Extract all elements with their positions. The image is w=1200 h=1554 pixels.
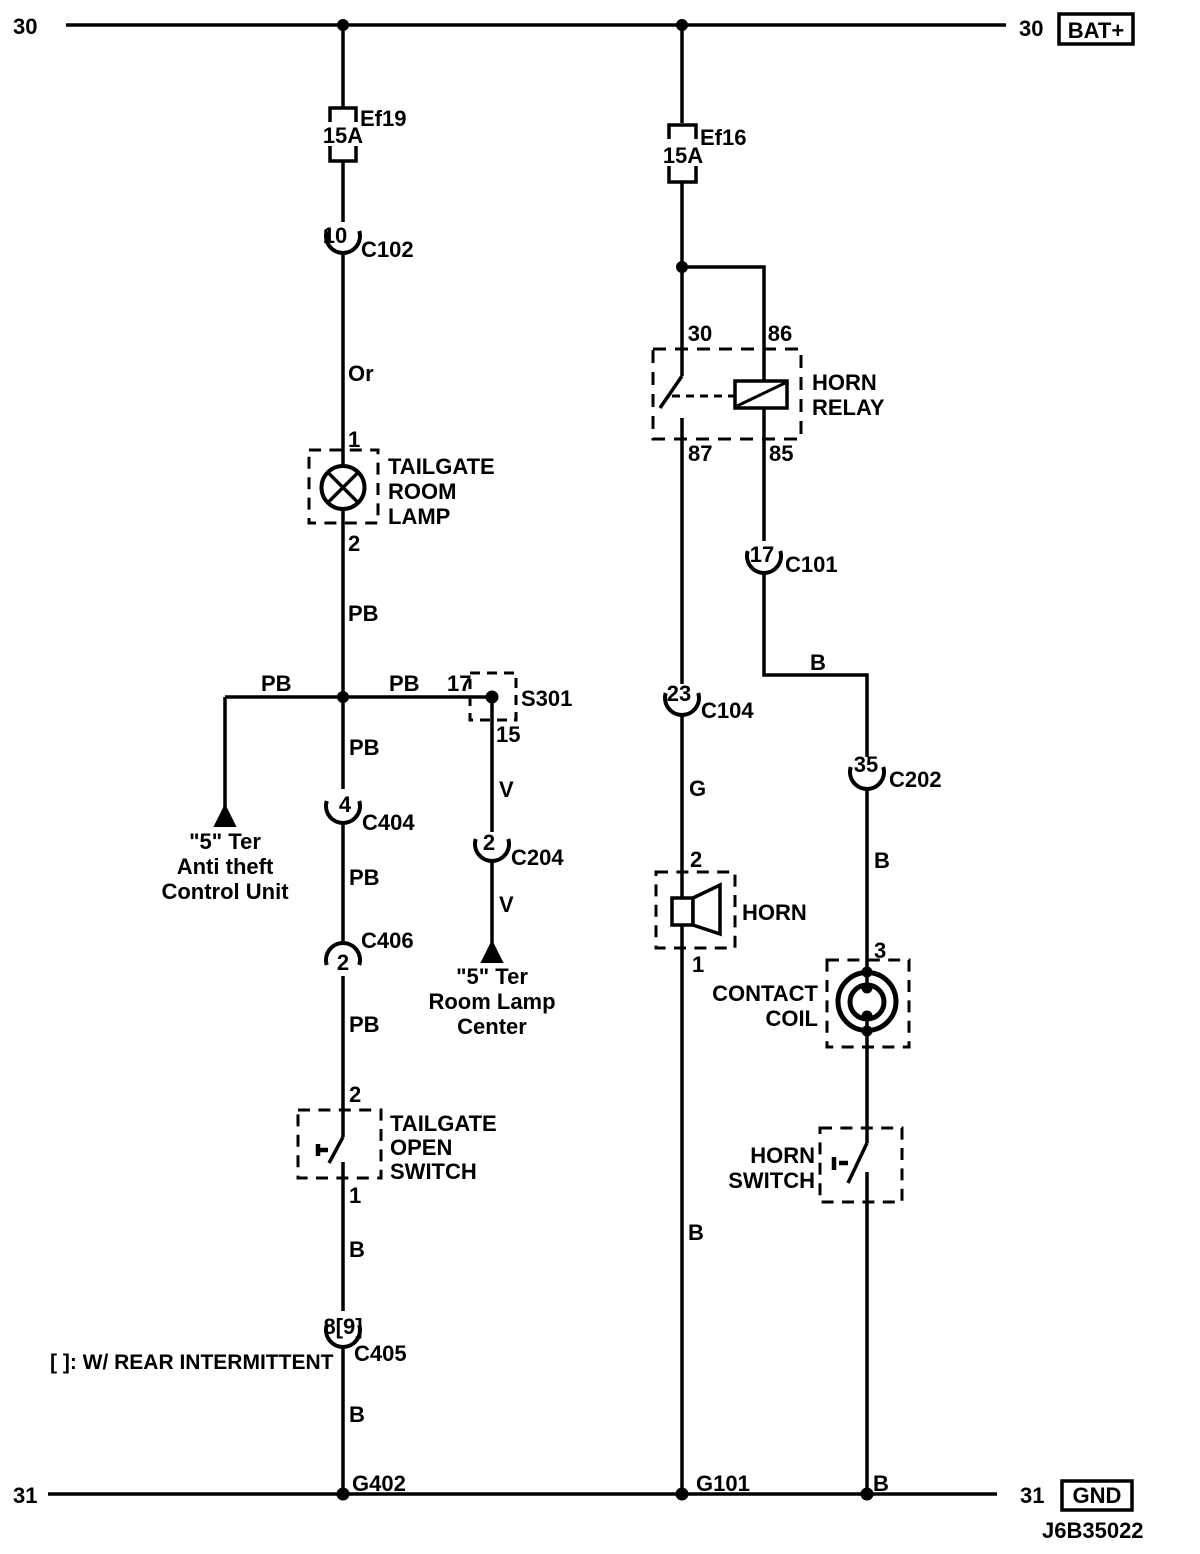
svg-text:10: 10 [323,223,347,248]
svg-text:HORN: HORN [742,900,807,925]
svg-text:B: B [349,1237,365,1262]
svg-text:C204: C204 [511,845,564,870]
GND box [1062,1481,1132,1510]
connector C406 pin 2 [326,928,414,975]
svg-text:Control Unit: Control Unit [161,879,289,904]
wire: fuse Ef19 to connector C102 [341,161,345,222]
wire V: C204 to room lamp center [490,861,494,944]
svg-text:GND: GND [1073,1483,1122,1508]
svg-text:B: B [810,650,826,675]
svg-text:23: 23 [667,681,691,706]
svg-text:Or: Or [348,361,374,386]
connector C404 pin 4 [326,792,415,835]
label "5" Ter Room Lamp Center [428,964,555,1039]
svg-text:2: 2 [690,847,702,872]
wire PB: junction to C404 [341,697,345,789]
svg-text:1: 1 [348,427,360,452]
svg-text:B: B [874,848,890,873]
svg-text:J6B35022: J6B35022 [1042,1518,1144,1543]
svg-text:15A: 15A [323,123,363,148]
svg-text:C104: C104 [701,698,754,723]
svg-text:RELAY: RELAY [812,395,885,420]
horn relay [653,349,885,439]
svg-text:Room Lamp: Room Lamp [428,989,555,1014]
BAT+ box [1059,14,1133,44]
svg-text:TAILGATE: TAILGATE [388,454,495,479]
svg-text:30: 30 [688,321,712,346]
wire PB: C406 to tailgate open switch [341,976,345,1137]
svg-text:C202: C202 [889,767,942,792]
terminal triangle: anti theft control unit [215,806,235,826]
wire B: horn switch to bus 31 [865,1172,869,1494]
wire: relay pin 87 to C104 [680,418,684,684]
svg-text:V: V [499,892,514,917]
svg-text:HORN: HORN [750,1143,815,1168]
wire B: C101 elbow to C202 [764,573,867,757]
svg-text:C404: C404 [362,810,415,835]
node: ground G101 [676,1488,689,1501]
connector C202 pin 35 [850,752,942,792]
wire B: horn to ground G101 [680,925,684,1494]
svg-text:PB: PB [349,865,380,890]
svg-text:Center: Center [457,1014,527,1039]
svg-text:2: 2 [483,830,495,855]
svg-text:SWITCH: SWITCH [728,1168,815,1193]
svg-text:LAMP: LAMP [388,504,450,529]
wire: bus30 to fuse Ef16 [680,25,684,123]
splice S301 [470,673,572,720]
terminal triangle: room lamp center [482,942,502,962]
wire: relay pin 85 to C101 [762,408,766,541]
svg-text:4: 4 [339,792,352,817]
svg-text:C405: C405 [354,1341,407,1366]
wire G: C104 to horn [680,715,684,898]
svg-text:Anti theft: Anti theft [177,854,274,879]
wire PB: C404 to C406 [341,823,345,943]
svg-text:8[9]: 8[9] [323,1314,362,1339]
svg-text:30: 30 [13,14,37,39]
svg-text:2: 2 [349,1082,361,1107]
contact coil [712,960,909,1047]
svg-text:30: 30 [1019,16,1043,41]
wire: fuse Ef16 to horn relay pin 30 [680,182,684,376]
svg-text:G: G [689,776,706,801]
svg-text:"5" Ter: "5" Ter [456,964,528,989]
svg-text:PB: PB [389,671,420,696]
horn [656,872,807,948]
svg-text:C406: C406 [361,928,414,953]
svg-text:OPEN: OPEN [390,1135,452,1160]
svg-text:TAILGATE: TAILGATE [390,1111,497,1136]
tailgate open switch [298,1110,497,1184]
svg-text:15: 15 [496,722,520,747]
svg-text:Ef19: Ef19 [360,106,406,131]
svg-text:S301: S301 [521,686,572,711]
tailgate room lamp [309,450,495,529]
bus 31 line [48,1492,997,1496]
svg-text:2: 2 [348,531,360,556]
bus 30 line [66,23,1006,27]
svg-text:PB: PB [349,735,380,760]
wire Or: C102 to tailgate room lamp [341,253,345,466]
svg-text:ROOM: ROOM [388,479,456,504]
svg-text:SWITCH: SWITCH [390,1159,477,1184]
wire B: C202 to contact coil [865,789,869,988]
svg-text:35: 35 [854,752,878,777]
wire: horizontal PB distribution [225,695,492,699]
wire B: C405 to ground G402 [341,1347,345,1494]
svg-text:86: 86 [768,321,792,346]
svg-text:COIL: COIL [765,1006,818,1031]
connector C405 pin 8[9] [323,1314,406,1366]
svg-text:PB: PB [348,601,379,626]
fuse Ef16 15A [663,125,747,182]
horn switch [728,1128,902,1202]
node: horn switch ground [861,1488,874,1501]
svg-text:V: V [499,777,514,802]
wire B: switch to C405 [341,1162,345,1311]
svg-text:C101: C101 [785,552,838,577]
node: PB junction [337,691,349,703]
connector C204 pin 2 [475,830,564,870]
connector C104 pin 23 [665,681,754,723]
svg-text:B: B [349,1402,365,1427]
svg-text:2: 2 [337,950,349,975]
wire PB: lamp to junction [341,509,345,697]
node: bus30 / right column junction [676,19,688,31]
svg-text:17: 17 [750,542,774,567]
svg-text:15A: 15A [663,143,703,168]
fuse Ef19 15A [323,106,407,161]
node: ground G402 [337,1488,350,1501]
svg-text:B: B [688,1220,704,1245]
svg-text:31: 31 [1020,1483,1044,1508]
svg-text:[ ]: W/ REAR INTERMITTENT: [ ]: W/ REAR INTERMITTENT [50,1351,334,1374]
wire: left drop to anti theft control unit [223,697,227,808]
node: relay feed junction [676,261,688,273]
connector C101 pin 17 [747,542,838,577]
svg-text:PB: PB [349,1012,380,1037]
label "5" Ter Anti theft Control Unit [161,829,289,904]
svg-text:87: 87 [688,441,712,466]
wire: bus30 to fuse Ef19 [341,25,345,108]
svg-text:C102: C102 [361,237,414,262]
svg-text:HORN: HORN [812,370,877,395]
svg-text:1: 1 [349,1183,361,1208]
node: bus30 / left column junction [337,19,349,31]
svg-text:PB: PB [261,671,292,696]
svg-text:31: 31 [13,1483,37,1508]
svg-text:17: 17 [447,671,471,696]
connector C102 pin 10 [323,223,414,262]
svg-text:"5" Ter: "5" Ter [189,829,261,854]
svg-text:Ef16: Ef16 [700,125,746,150]
svg-text:1: 1 [692,952,704,977]
svg-text:BAT+: BAT+ [1068,18,1124,43]
wire: contact coil to horn switch [865,1016,869,1143]
wire V: S301 to C204 [490,697,494,832]
svg-text:CONTACT: CONTACT [712,981,818,1006]
wire: junction to relay pin 86 [682,267,764,381]
svg-text:85: 85 [769,441,793,466]
